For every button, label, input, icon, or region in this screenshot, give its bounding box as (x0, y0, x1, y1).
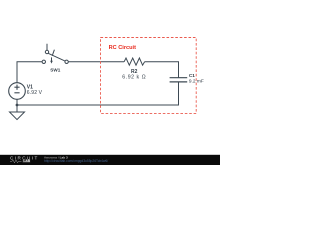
capacitor C1 (170, 78, 188, 82)
svg-text:SW1: SW1 (50, 67, 60, 72)
footer watermark bar (0, 155, 220, 165)
wire from capacitor C1 bottom down and left along the bottom (17, 82, 179, 105)
wire from SW1 right to resistor R2 (68, 61, 124, 63)
svg-text:C1: C1 (189, 73, 195, 78)
switch actuator arrowhead (50, 61, 53, 64)
wire from V1 bottom to ground node (16, 99, 18, 112)
ground (10, 112, 25, 120)
svg-text:6.92 V: 6.92 V (27, 90, 43, 96)
logo LAB badge (23, 159, 31, 163)
wire top-left from V1 up and right to SW1 (17, 62, 42, 83)
node junction at V1 bottom (16, 104, 19, 107)
logo resistor squiggle (10, 160, 22, 163)
switch SW1 (42, 44, 68, 64)
svg-text:http://circuitlab.com/cmpgd3u5: http://circuitlab.com/cmpgd3u55p26Tcb4w6… (44, 159, 108, 163)
svg-text:RC Circuit: RC Circuit (109, 45, 136, 51)
svg-text:LAB: LAB (23, 159, 30, 163)
voltage source V1 (9, 83, 26, 100)
annotation box RC Circuit (101, 38, 197, 114)
wire from R2 to capacitor C1 top (145, 62, 179, 78)
svg-text:6.92 k Ω: 6.92 k Ω (122, 74, 146, 80)
resistor R2 (124, 58, 145, 65)
